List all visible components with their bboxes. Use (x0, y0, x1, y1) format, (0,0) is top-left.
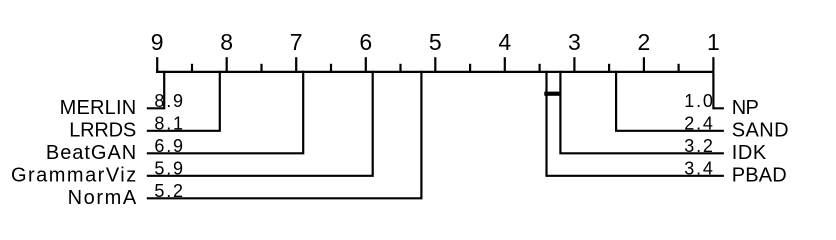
line LRRDS rank 8.1 (147, 71, 220, 131)
line NP rank 1.0 (713, 71, 724, 109)
major tick 1 (712, 57, 714, 73)
svg-text:3: 3 (568, 29, 581, 55)
major tick 6 (365, 57, 367, 73)
svg-text:4: 4 (498, 29, 511, 55)
svg-text:5.9: 5.9 (154, 159, 183, 179)
svg-text:LRRDS: LRRDS (69, 119, 136, 141)
clique bar IDK-PBAD (544, 92, 561, 96)
minor tick 2.5 (608, 64, 610, 73)
line BeatGAN rank 6.9 (147, 71, 303, 154)
svg-text:7: 7 (290, 29, 303, 55)
svg-text:GrammarViz: GrammarViz (11, 164, 136, 186)
line GrammarViz rank 5.9 (147, 71, 373, 176)
minor tick 4.5 (469, 64, 471, 73)
minor tick 3.5 (538, 64, 540, 73)
minor tick 8.5 (191, 64, 193, 73)
svg-text:SAND: SAND (732, 119, 789, 141)
svg-text:1: 1 (707, 29, 720, 55)
line MERLIN rank 8.9 (147, 71, 164, 109)
svg-text:8.1: 8.1 (154, 114, 183, 134)
major tick 2 (643, 57, 645, 73)
line NormA rank 5.2 (147, 71, 422, 199)
svg-text:8: 8 (220, 29, 233, 55)
svg-text:2.4: 2.4 (684, 114, 713, 134)
major tick 4 (504, 57, 506, 73)
line IDK rank 3.2 (560, 71, 724, 154)
minor tick 7.5 (260, 64, 262, 73)
svg-text:MERLIN: MERLIN (60, 97, 137, 119)
line SAND rank 2.4 (616, 71, 724, 131)
svg-text:NP: NP (732, 97, 759, 119)
svg-text:9: 9 (151, 29, 164, 55)
minor tick 5.5 (399, 64, 401, 73)
svg-text:6.9: 6.9 (154, 136, 183, 156)
major tick 8 (226, 57, 228, 73)
svg-text:IDK: IDK (732, 142, 767, 164)
svg-text:3.2: 3.2 (684, 136, 713, 156)
line PBAD rank 3.4 (547, 71, 724, 176)
major tick 3 (573, 57, 575, 73)
svg-text:8.9: 8.9 (154, 91, 183, 111)
axis line (156, 71, 714, 73)
minor tick 6.5 (330, 64, 332, 73)
svg-text:2: 2 (638, 29, 651, 55)
svg-text:PBAD: PBAD (732, 164, 787, 186)
svg-text:NormA: NormA (68, 187, 137, 209)
svg-text:5: 5 (429, 29, 442, 55)
svg-text:BeatGAN: BeatGAN (46, 142, 136, 164)
svg-text:5.2: 5.2 (154, 181, 183, 201)
svg-text:3.4: 3.4 (684, 159, 713, 179)
svg-text:1.0: 1.0 (684, 91, 713, 111)
minor tick 1.5 (677, 64, 679, 73)
major tick 7 (295, 57, 297, 73)
major tick 9 (156, 57, 158, 73)
major tick 5 (434, 57, 436, 73)
svg-text:6: 6 (359, 29, 372, 55)
